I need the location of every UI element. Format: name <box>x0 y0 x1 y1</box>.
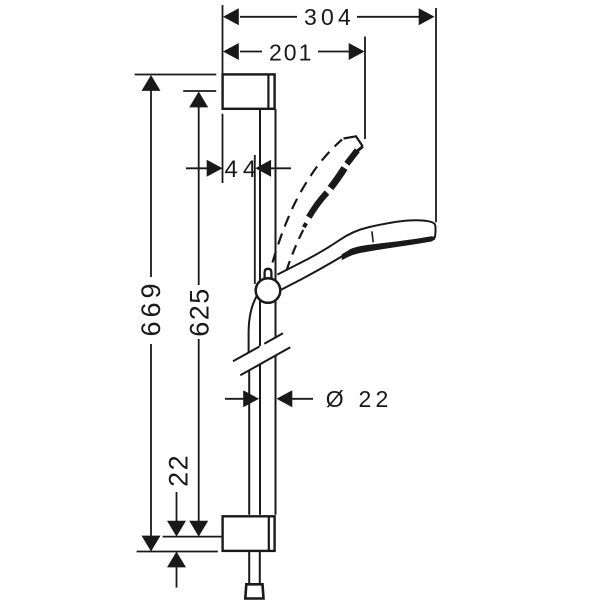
raised handshower spray face dark band <box>304 150 358 227</box>
dimension 669 top extension line <box>135 74 217 76</box>
dimension 625 top extension line <box>183 90 216 92</box>
dimension 44 left tail <box>186 167 208 169</box>
bottom wall bracket <box>223 516 275 551</box>
dimension 201 right arrow <box>349 43 365 60</box>
extension line dashed-head (x=365) <box>364 37 366 140</box>
dimension 22 up arrow <box>167 552 186 568</box>
dimension 304 right arrow <box>419 8 435 25</box>
dimension 44 right tail <box>270 167 291 169</box>
dimension 44 right arrow <box>255 160 271 177</box>
svg-text:Ø 22: Ø 22 <box>326 386 393 412</box>
diameter dim left arrow <box>243 390 259 407</box>
bottom wall bracket inner line <box>268 516 270 551</box>
dimension 625 top arrow <box>189 92 208 108</box>
hose left edge below break <box>248 371 250 515</box>
dimension 625 bottom arrow <box>189 521 208 537</box>
break symbol lower diagonal <box>240 347 290 375</box>
svg-text:304: 304 <box>304 4 355 30</box>
extension line y=536.6 <box>163 536 222 538</box>
extension line head-tip (x=436) <box>435 8 437 222</box>
dimension 22 lower line <box>176 566 178 588</box>
svg-text:625: 625 <box>184 287 214 337</box>
dimension 22 down arrow <box>167 521 186 537</box>
dimension 201 line <box>240 51 349 53</box>
dimension 669 bottom extension line <box>137 551 218 553</box>
dimension 669 top arrow <box>142 75 161 91</box>
rail left edge <box>259 109 261 515</box>
dimension 304 line <box>240 16 420 18</box>
slider circle <box>256 278 281 303</box>
handshower spray face dark band <box>342 236 436 260</box>
dashed raised handshower left edge <box>273 140 343 263</box>
handshower face tick <box>372 231 373 242</box>
dimension 22 upper line <box>176 492 178 522</box>
dimension 304 left arrow <box>223 8 239 25</box>
svg-text:669: 669 <box>136 279 166 336</box>
handshower handle lower line <box>281 254 346 290</box>
dashed raised handshower right edge <box>287 230 304 271</box>
dimension 669 line <box>150 90 152 537</box>
svg-text:22: 22 <box>164 454 194 487</box>
break symbol white band <box>233 333 290 375</box>
svg-text:201: 201 <box>269 39 313 65</box>
hose below bottom bracket <box>249 552 260 585</box>
break symbol upper diagonal <box>233 333 283 361</box>
extension line left (x=222.5) <box>222 5 224 183</box>
dimension 44 left arrow <box>207 160 223 177</box>
dimension 44 reference line (x=254.8) <box>254 155 256 284</box>
hose end nut <box>245 584 263 598</box>
diameter dim right tail <box>292 398 314 400</box>
diameter dim left tail <box>225 398 245 400</box>
diameter dim right arrow <box>277 390 293 407</box>
raised handshower head top edge <box>344 136 363 146</box>
top wall bracket <box>223 74 275 108</box>
top wall bracket inner line <box>267 74 269 108</box>
dimension 669 bottom arrow <box>142 536 161 552</box>
rail right edge <box>275 109 277 515</box>
handshower handle upper line <box>277 220 435 274</box>
hose curve from slider <box>249 297 257 353</box>
dimension 625 line <box>198 106 200 522</box>
slider knob <box>265 269 272 284</box>
dimension 201 left arrow <box>223 43 239 60</box>
raised handshower head tip face edge <box>358 147 363 151</box>
